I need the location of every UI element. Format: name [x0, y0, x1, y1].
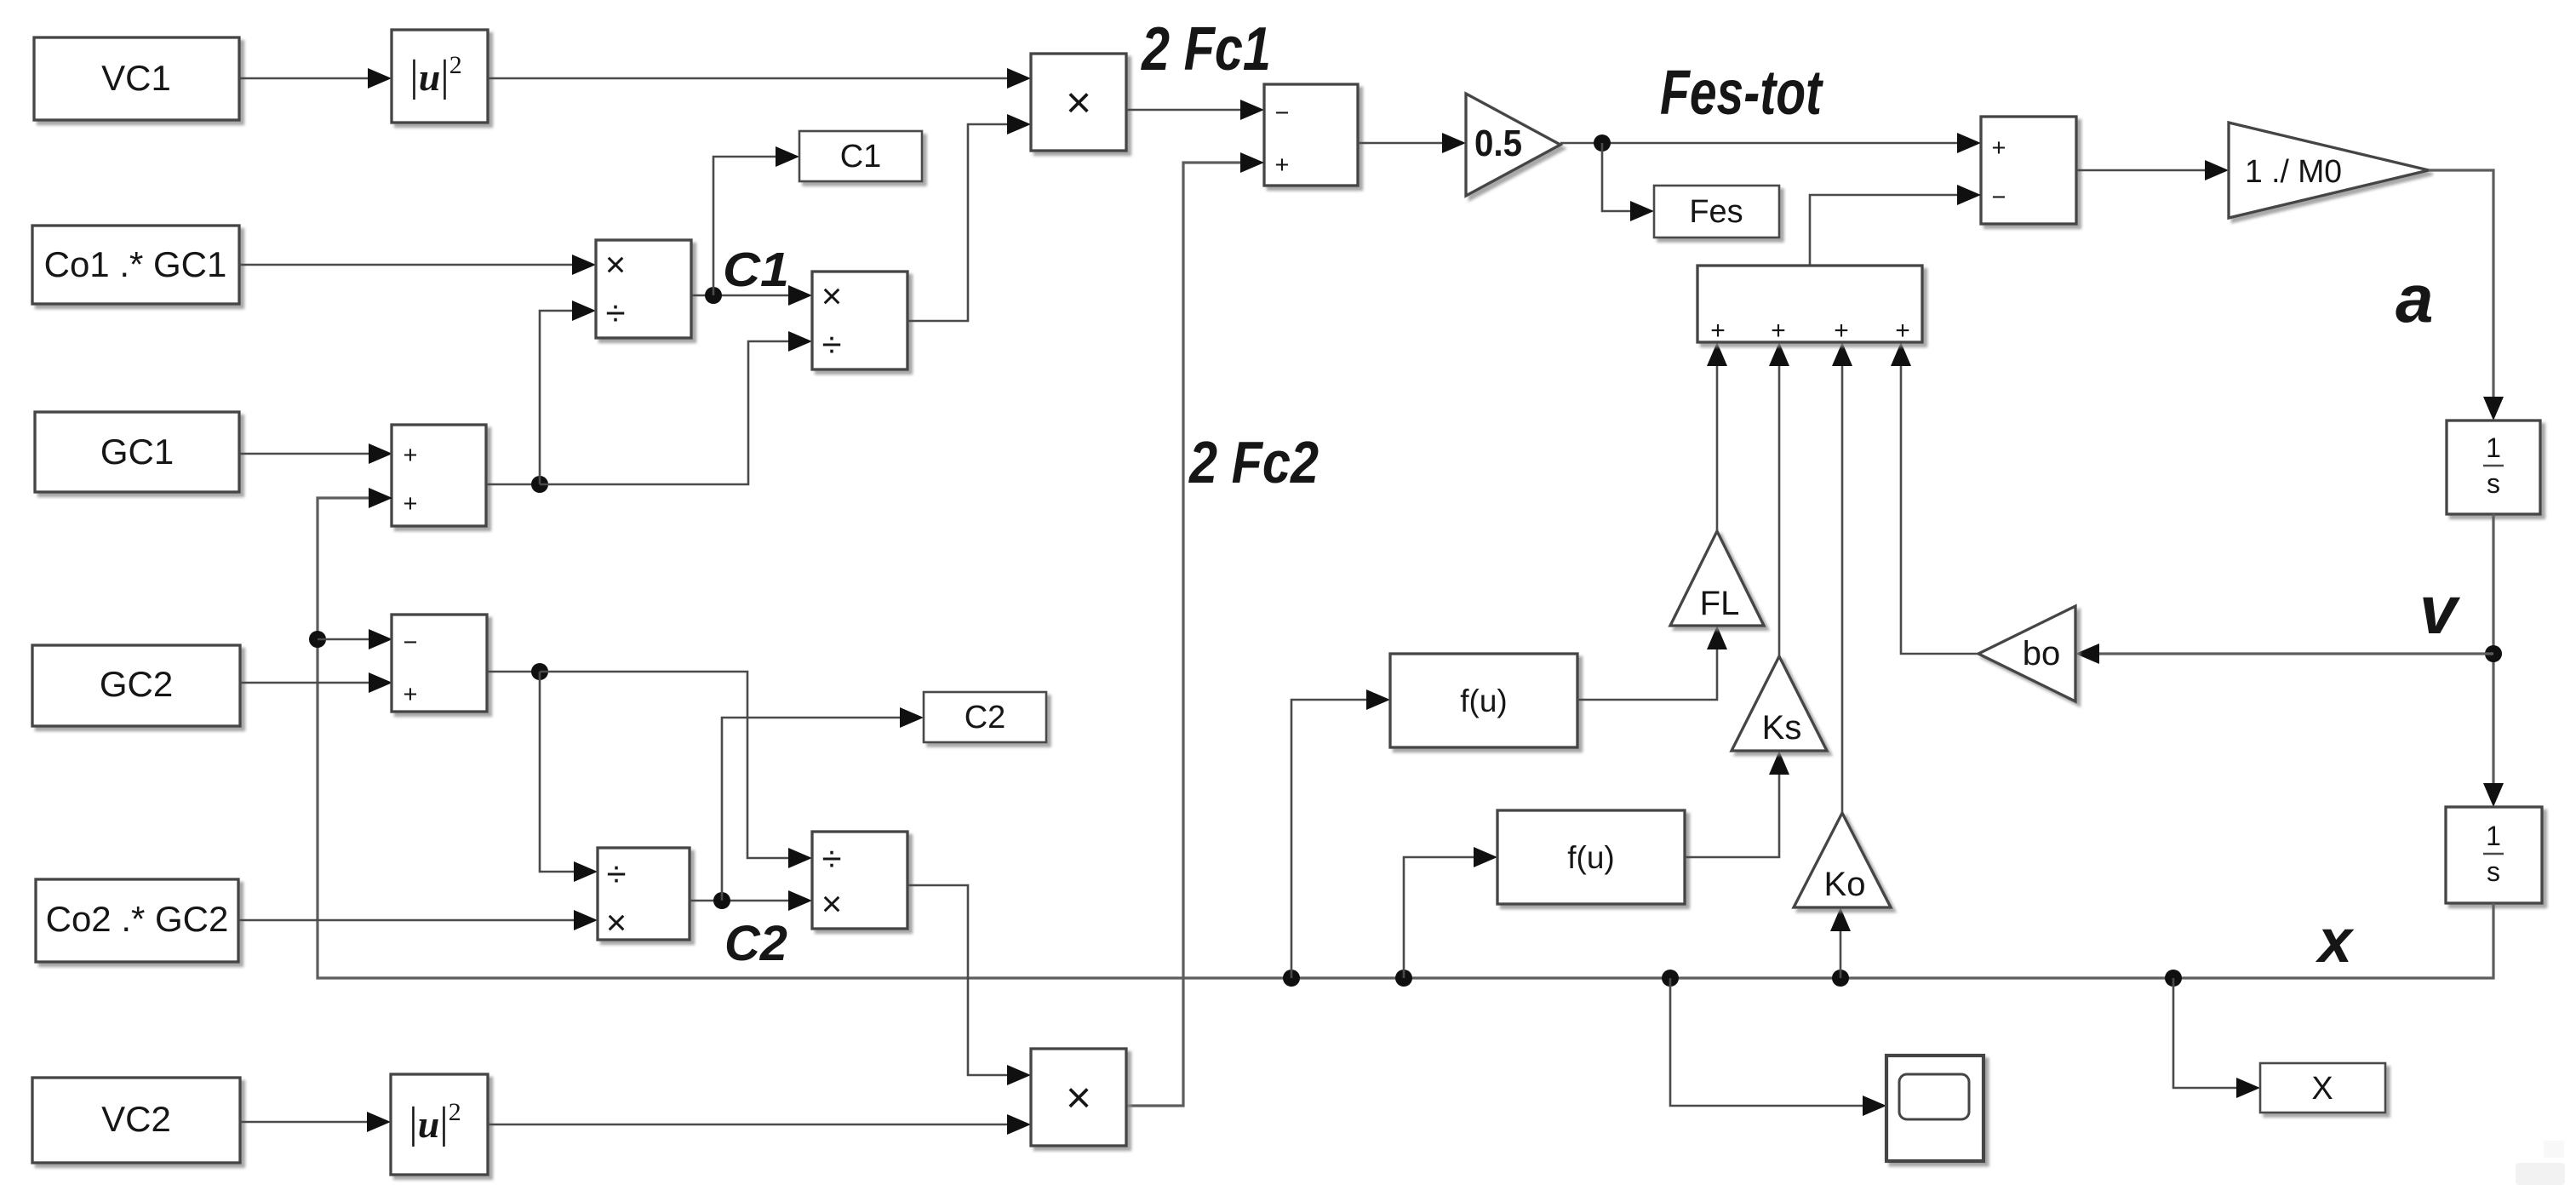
svg-text:+: +	[1275, 152, 1290, 179]
wire x feedback long line from 1/s #2 to sum S3 second input	[318, 488, 2493, 978]
svg-text:VC2: VC2	[101, 1099, 171, 1139]
svg-text:×: ×	[606, 902, 627, 942]
svg-text:+: +	[404, 490, 418, 518]
wire S3 output to node N1	[486, 483, 540, 486]
svg-text:1 ./ M0: 1 ./ M0	[2245, 154, 2342, 190]
node N1 junction	[531, 476, 548, 493]
gain block 1 ./ M0	[2229, 123, 2429, 218]
svg-text:s: s	[2487, 856, 2500, 887]
wire VC2 to |u|^2 #2	[240, 1112, 391, 1132]
wire gain M0 to integrator 1/s #1 (signal a)	[2429, 170, 2504, 421]
wire x tap down to scope	[1670, 978, 1886, 1116]
svg-text:×: ×	[1066, 1073, 1091, 1123]
wire |u|^2 #1 to product P1	[488, 68, 1031, 89]
node x-to-f(u)2 junction	[1395, 970, 1412, 987]
label C2 signal name	[724, 916, 787, 971]
label v	[2419, 572, 2461, 648]
wire x tap up to gain Ko	[1830, 907, 1851, 978]
svg-text:Ko: Ko	[1824, 866, 1866, 903]
label Fes-tot	[1660, 57, 1824, 128]
svg-text:−: −	[404, 629, 418, 656]
svg-text:x: x	[2315, 907, 2355, 975]
wire gain FL to big sum input 1	[1707, 342, 1727, 531]
faint watermark	[2516, 1141, 2565, 1185]
svg-text:×: ×	[605, 244, 627, 284]
sum block S1 (- +)	[1264, 84, 1358, 186]
wire 1/s #1 output down to node v and 1/s #2	[2483, 514, 2504, 807]
wire node N1 up to PD1 divide input	[540, 300, 596, 484]
svg-text:+: +	[404, 681, 418, 708]
wire gain bo to big sum input 4	[1891, 342, 1978, 654]
node x-to-GC2 junction	[309, 631, 326, 648]
wire S2 output to gain 1./M0	[2076, 160, 2229, 180]
wire x tap down to display X	[2173, 978, 2260, 1098]
svg-text:×: ×	[821, 276, 843, 316]
display block X	[2260, 1063, 2385, 1113]
prod-div block PD1 (x over /)	[596, 240, 691, 338]
wire 2Fc2 long vertical to sum S1 plus input	[1126, 152, 1264, 1106]
svg-text:GC1: GC1	[100, 432, 174, 472]
function block f(u) #1	[1390, 654, 1577, 747]
wire GC2 to sum S4 plus input	[240, 672, 392, 693]
gain block Ko (points up)	[1794, 813, 1891, 907]
sum block S4 (- +)	[392, 615, 487, 712]
svg-text:C2: C2	[724, 916, 787, 971]
svg-text:Fes-tot: Fes-tot	[1660, 57, 1824, 128]
svg-text:C1: C1	[723, 243, 789, 297]
wire Co2.*GC2 to divide D1 x input	[238, 910, 598, 930]
function block f(u) #2	[1497, 810, 1685, 904]
wire big sum output up to S2 minus input	[1810, 185, 1981, 266]
math block |u|^2 #1	[392, 30, 488, 123]
divide block D2 (/ over x)	[812, 832, 907, 929]
svg-text:bo: bo	[2023, 635, 2061, 672]
label a	[2396, 260, 2434, 336]
source block VC2	[32, 1078, 240, 1163]
svg-text:×: ×	[1066, 78, 1091, 128]
svg-text:1: 1	[2486, 821, 2501, 851]
svg-text:s: s	[2487, 468, 2500, 499]
integrator block 1/s #2	[2446, 807, 2542, 903]
wire node N2 down to divide D1 input	[540, 672, 598, 882]
svg-text:÷: ÷	[606, 854, 626, 894]
wire node v left to gain bo	[2075, 644, 2493, 664]
svg-text:+: +	[404, 442, 418, 469]
wire S1 output to gain 0.5	[1358, 133, 1466, 153]
label 2 Fc1	[1140, 15, 1271, 83]
svg-text:X: X	[2311, 1071, 2333, 1107]
gain block bo (points left)	[1978, 606, 2075, 701]
wire node N1 right-up to PD2 divide input	[540, 331, 812, 484]
node Fes-tot junction	[1594, 134, 1611, 152]
node x-to-X junction	[2165, 970, 2182, 987]
svg-text:−: −	[1992, 184, 2006, 211]
label x	[2315, 907, 2355, 975]
node x-to-scope junction	[1662, 970, 1679, 987]
node C1 junction	[705, 287, 722, 304]
arrow into PD2 x input	[788, 285, 812, 306]
svg-text:FL: FL	[1700, 585, 1740, 622]
node x-to-f(u)1 junction	[1283, 970, 1300, 987]
gain block FL (points up)	[1670, 531, 1764, 626]
svg-text:VC1: VC1	[101, 58, 171, 98]
divide block D1 (/ over x)	[598, 848, 690, 942]
svg-text:GC2: GC2	[100, 664, 173, 704]
svg-text:1: 1	[2486, 432, 2501, 463]
svg-text:Ks: Ks	[1762, 709, 1802, 747]
svg-text:+: +	[1895, 317, 1910, 345]
svg-text:Co1 .* GC1: Co1 .* GC1	[44, 244, 227, 284]
source block GC2	[32, 645, 240, 726]
product block P2 (x)	[1031, 1049, 1126, 1146]
node x-to-Ko junction	[1832, 970, 1849, 987]
wire gain Ks to big sum input 2	[1769, 342, 1789, 656]
wire GC1 to sum S3 input 1	[239, 443, 392, 464]
svg-text:f(u): f(u)	[1567, 840, 1615, 875]
wire x tap to sum S4 minus input	[318, 629, 392, 649]
svg-text:a: a	[2396, 260, 2434, 336]
arrow into D2 x input	[788, 890, 812, 911]
svg-text:v: v	[2419, 572, 2461, 648]
svg-text:÷: ÷	[821, 324, 841, 364]
svg-text:0.5: 0.5	[1474, 123, 1522, 164]
node C2 junction	[713, 892, 730, 909]
sum block S3 (GC1 + x)	[392, 425, 486, 526]
wire Co1.*GC1 to prod-div PD1 x input	[239, 255, 596, 275]
wire P1 output to sum S1 minus input	[1126, 100, 1264, 120]
gain block Ks (points up)	[1732, 656, 1827, 751]
prod-div block PD2 (x over /)	[812, 272, 907, 369]
node v junction	[2485, 645, 2502, 662]
svg-text:Co2 .* GC2: Co2 .* GC2	[46, 899, 229, 939]
wire gain Ko to big sum input 3	[1832, 342, 1852, 813]
source block Co2 .* GC2	[36, 879, 238, 962]
svg-text:C1: C1	[840, 139, 882, 174]
source block VC1	[34, 37, 239, 120]
svg-text:2 Fc2: 2 Fc2	[1188, 429, 1319, 495]
wire node Fes-tot down to display Fes	[1602, 143, 1654, 221]
wire VC1 to |u|^2 #1	[239, 68, 392, 89]
source block GC1	[35, 412, 239, 492]
wire node C1 up to display C1	[713, 146, 799, 295]
wire D2 output to product P2 first input	[907, 885, 1031, 1085]
wire f(u) #1 to gain FL	[1577, 626, 1727, 700]
integrator block 1/s #1	[2447, 421, 2540, 514]
wire node N2 right-down to divide D2 input	[540, 672, 812, 868]
scope block	[1886, 1056, 1984, 1161]
svg-text:÷: ÷	[821, 838, 841, 878]
wire gain 0.5 to node Fes-tot and sum S2 plus input	[1560, 133, 1981, 153]
svg-text:2 Fc1: 2 Fc1	[1140, 15, 1271, 83]
svg-text:+: +	[1771, 317, 1786, 345]
wire PD1 output to node C1	[691, 295, 788, 297]
gain block 0.5	[1466, 94, 1560, 196]
wire f(u) #2 to gain Ks	[1685, 751, 1789, 857]
svg-text:+: +	[1992, 134, 2006, 162]
wire D1 output to node C2	[690, 900, 788, 902]
product block P1 (x)	[1031, 54, 1126, 151]
display block C1	[799, 131, 922, 181]
label 2 Fc2	[1188, 429, 1319, 495]
label C1 signal name	[723, 243, 789, 297]
svg-text:f(u): f(u)	[1460, 684, 1508, 718]
svg-text:C2: C2	[965, 700, 1006, 735]
svg-text:+: +	[1834, 317, 1849, 345]
wire x tap up to f(u) #2	[1404, 847, 1497, 978]
sum block S2 (+ -)	[1981, 117, 2076, 224]
wire |u|^2 #2 to product P2 second input	[488, 1114, 1031, 1135]
svg-text:−: −	[1275, 100, 1290, 127]
source block Co1 .* GC1	[32, 226, 239, 304]
node N2 junction	[531, 663, 548, 680]
wire PD2 output to product P1 lower input	[907, 114, 1031, 321]
display block C2	[924, 692, 1046, 742]
big sum block (+ + + +)	[1697, 266, 1922, 345]
svg-text:×: ×	[821, 884, 843, 924]
display block Fes	[1654, 186, 1779, 237]
wire S4 output to node N2	[487, 671, 540, 673]
math block |u|^2 #2	[391, 1074, 488, 1175]
svg-text:+: +	[1710, 317, 1726, 345]
wire x tap up to f(u) #1	[1291, 689, 1390, 978]
wire node C2 up to display C2	[722, 707, 924, 901]
svg-text:÷: ÷	[605, 293, 625, 333]
svg-text:Fes: Fes	[1689, 194, 1743, 230]
